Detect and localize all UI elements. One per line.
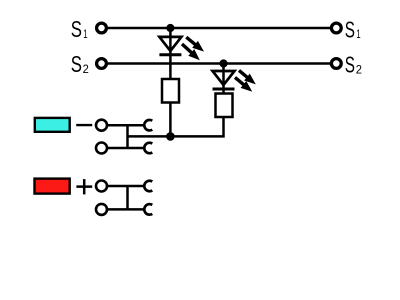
minus sign: [76, 124, 92, 126]
wire LED1 anode lead: [169, 28, 172, 79]
svg-text:1: 1: [83, 27, 88, 41]
wire minus lower row: [107, 147, 145, 150]
clamp terminal circle minus lower: [96, 143, 107, 154]
cyan marker (minus terminal): [35, 118, 70, 132]
wire LED2 anode lead: [222, 64, 225, 94]
svg-text:2: 2: [356, 62, 362, 76]
terminal S1 left (circle): [97, 23, 107, 33]
wire S2 rail: [108, 62, 331, 65]
plus sign: [76, 179, 92, 194]
junction node on S2 rail: [219, 59, 227, 67]
resistor R2: [216, 94, 233, 118]
wire S1 rail: [108, 27, 331, 30]
clamp contact plus upper: [144, 181, 152, 192]
resistor R1: [162, 79, 179, 103]
wire R1 to bottom junction: [169, 103, 172, 137]
junction node on S1 rail: [166, 24, 174, 32]
label S2 right: [345, 52, 362, 78]
wire minus upper row: [107, 124, 145, 127]
clamp contact minus lower: [144, 143, 152, 154]
clamp contact plus lower: [144, 204, 152, 215]
wire plus lower row: [107, 208, 145, 211]
label S1 left: [71, 16, 88, 42]
clamp contact minus upper: [144, 120, 152, 131]
wire bottom horizontal to clamp bar: [128, 135, 172, 138]
wire plus upper row: [107, 185, 145, 188]
label S2 left: [71, 51, 89, 77]
label S1 right: [345, 16, 361, 42]
LED D1: [159, 37, 204, 60]
svg-text:S: S: [345, 16, 355, 42]
wire R2 to bottom wire (elbow): [170, 117, 223, 136]
terminal S1 right (circle): [331, 23, 341, 33]
clamp jumper bar plus: [126, 186, 129, 209]
red marker (plus terminal): [35, 179, 70, 194]
svg-text:S: S: [345, 52, 355, 78]
clamp terminal circle minus upper: [96, 120, 107, 131]
terminal S2 right (circle): [331, 59, 341, 69]
LED D2: [213, 70, 256, 91]
junction node bottom: [166, 132, 175, 141]
clamp jumper bar minus: [126, 125, 129, 148]
svg-text:S: S: [71, 51, 82, 77]
clamp terminal circle plus lower: [96, 204, 107, 215]
svg-text:2: 2: [83, 62, 89, 76]
svg-text:1: 1: [356, 27, 361, 41]
svg-text:S: S: [71, 16, 82, 42]
clamp terminal circle plus upper: [96, 181, 107, 192]
terminal S2 left (circle): [97, 59, 107, 69]
